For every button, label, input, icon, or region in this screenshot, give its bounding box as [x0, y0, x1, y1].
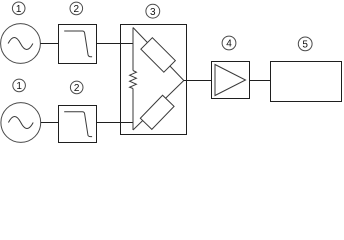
- bridge enclosure box: [121, 25, 187, 135]
- wire: top oscillator to top filter: [40, 43, 58, 45]
- resistor R2 (lower bridge arm, tilted body): [140, 95, 174, 129]
- label 1 (top oscillator): [12, 2, 25, 15]
- low-pass filter block (top): [59, 25, 97, 64]
- svg-text:1: 1: [16, 4, 22, 15]
- resistor R3 (zigzag, bridge centre): [130, 71, 137, 89]
- svg-text:5: 5: [302, 40, 308, 51]
- label 2 (top filter): [70, 2, 83, 15]
- wire: lower bridge arm: [133, 81, 184, 131]
- wire: bridge output node to amplifier: [184, 80, 212, 82]
- svg-text:2: 2: [74, 4, 80, 15]
- svg-text:3: 3: [150, 7, 156, 18]
- wire: amplifier to indicator block: [250, 80, 271, 82]
- wire: vertical link between bridge input nodes: [132, 28, 134, 131]
- wire: bottom oscillator to bottom filter: [41, 122, 59, 124]
- label 1 (bottom oscillator): [13, 79, 26, 92]
- oscillator source V1 (top): [1, 24, 41, 64]
- svg-text:2: 2: [74, 83, 80, 94]
- label 4 (amplifier): [222, 36, 236, 50]
- indicator/output block: [271, 62, 342, 102]
- wire: bottom filter to bridge box: [97, 122, 134, 124]
- amplifier U1 block: [212, 62, 250, 99]
- svg-text:4: 4: [226, 39, 232, 50]
- label 2 (bottom filter): [70, 81, 83, 94]
- wire: upper bridge arm: [133, 28, 184, 81]
- oscillator source V2 (bottom): [1, 103, 41, 143]
- resistor R1 (upper bridge arm, tilted body): [141, 38, 176, 73]
- svg-text:1: 1: [16, 81, 22, 92]
- wire: top filter to bridge box: [97, 43, 134, 45]
- low-pass filter block (bottom): [59, 106, 97, 143]
- label 3 (bridge box): [146, 4, 160, 18]
- label 5 (indicator block): [298, 37, 312, 51]
